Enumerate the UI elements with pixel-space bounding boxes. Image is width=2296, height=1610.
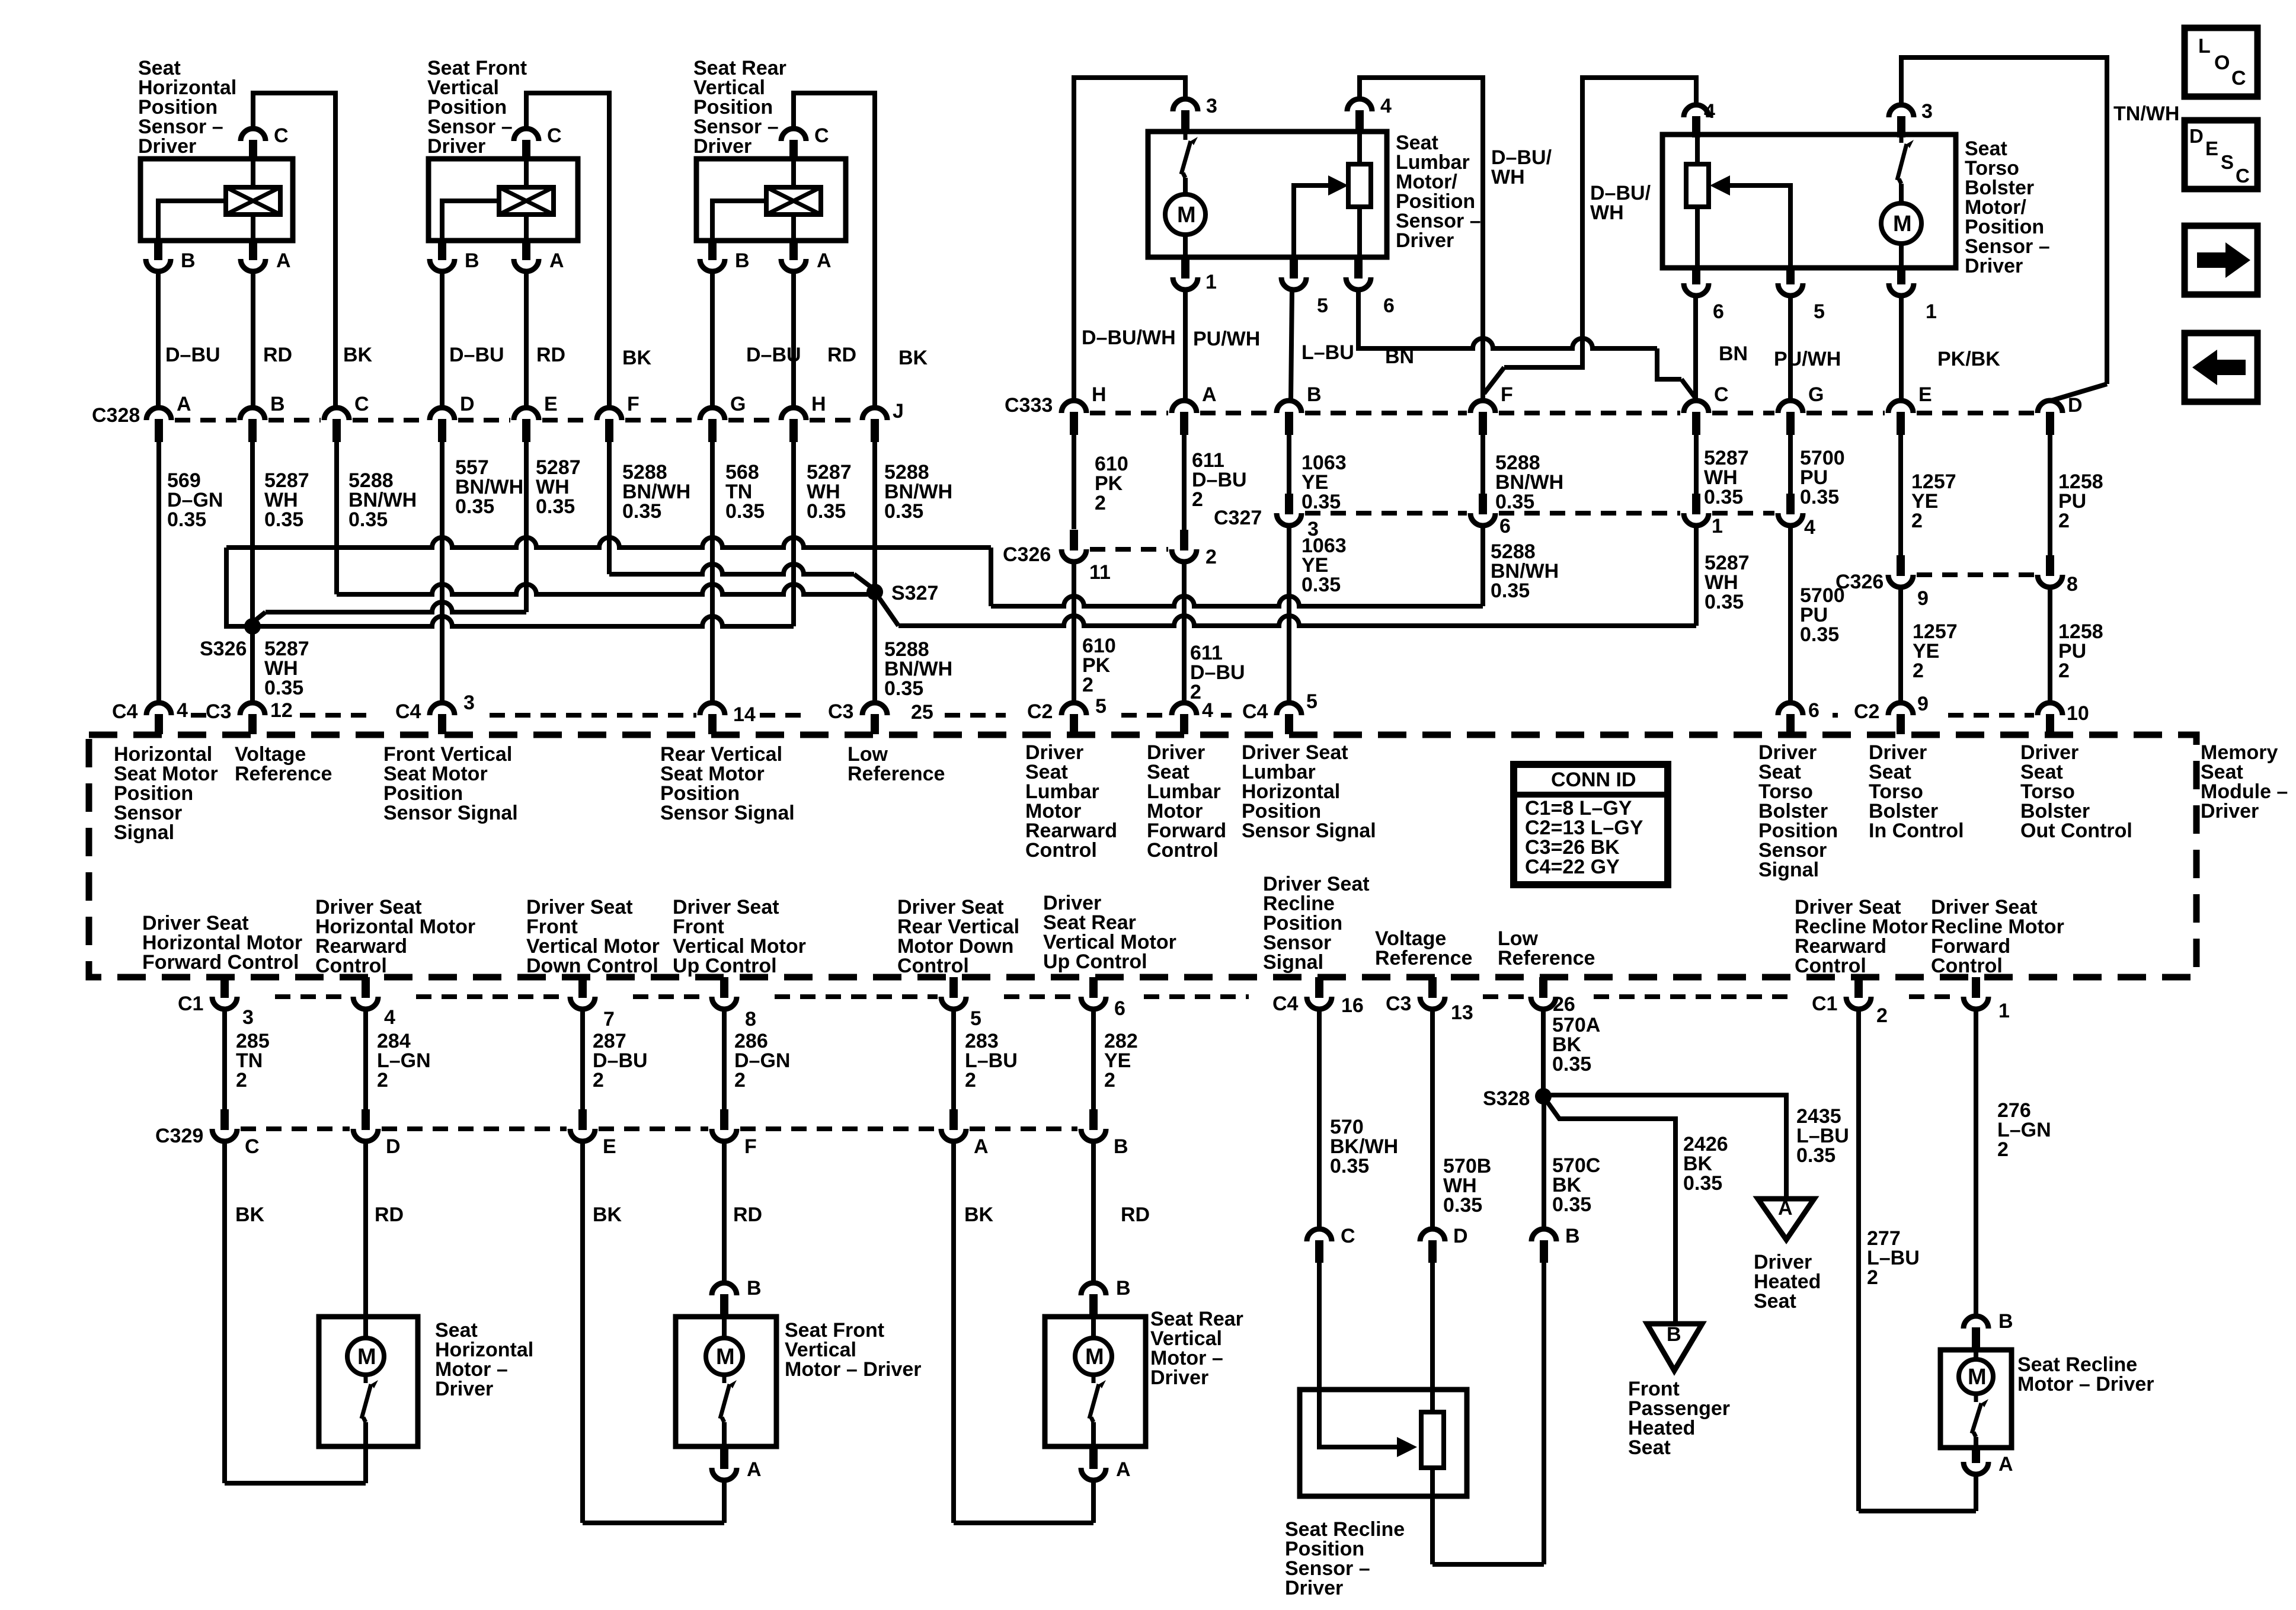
wire RD motor1 [363,1141,368,1317]
seat rear vertical motor box [1045,1317,1146,1446]
module bottom pin 7 [570,997,595,1009]
module row dashed line [1833,713,1838,718]
svg-text:M: M [357,1345,376,1369]
svg-text:Control: Control [897,955,969,977]
svg-text:Up Control: Up Control [673,955,777,977]
svg-text:2: 2 [1997,1138,2009,1161]
svg-text:0.35: 0.35 [1302,574,1341,596]
pin D C329 [353,1129,378,1141]
svg-text:C3: C3 [828,700,853,723]
pin J C328 [862,408,887,420]
pin A motor2 [712,1468,737,1480]
svg-text:B: B [1116,1277,1131,1299]
svg-text:C1: C1 [1812,993,1837,1015]
C328 dashed connector line [542,418,593,422]
seat front vertical position sensor box [428,159,578,241]
CONN ID table divider [1514,792,1668,798]
pin 9 C326 [1888,575,1913,587]
wire 5287 H column down [791,442,796,626]
svg-text:D: D [2189,125,2204,147]
svg-text:M: M [716,1345,735,1369]
wire 1063 to C4-5 [1287,526,1291,705]
wire 5700 to pin6 [1788,526,1793,705]
svg-text:A: A [817,249,832,272]
svg-text:F: F [627,393,639,415]
wire 570B WH [1430,1009,1435,1229]
wire diag S327 down [880,598,898,626]
wire 611 to pin4 [1182,562,1187,705]
svg-text:Reference: Reference [1498,947,1595,969]
seat front vertical motor box [676,1317,776,1446]
module row dashed line [945,713,1006,718]
module pin 3 [430,703,455,715]
C327 dashed line 6-1 [1499,511,1680,516]
module pin 6 [1778,703,1803,715]
pin F C328 [597,408,622,420]
svg-text:B: B [1998,1310,2013,1333]
wire into M3 [1091,1317,1096,1338]
svg-text:1: 1 [1205,271,1217,293]
C1 row dashed line [775,994,938,999]
motor M torso [1881,203,1921,244]
svg-text:2: 2 [1911,510,1923,532]
svg-text:B: B [1114,1135,1128,1158]
wire torso wiper [1719,185,1790,268]
pin 1 lumbar [1173,277,1198,290]
C333 dashed connector line [1806,411,1885,415]
svg-text:1: 1 [1998,1000,2010,1022]
svg-text:BK: BK [235,1204,265,1226]
module pin 4 [1172,703,1197,715]
pin B motor2 [712,1283,737,1295]
pin A C329 [941,1129,966,1141]
wire BK motor2 [580,1141,585,1523]
wire 5288 C column down [334,442,339,594]
wire sensor2 B down [440,271,445,408]
svg-text:C: C [2236,165,2250,187]
wire recline motor A down [1974,1474,1978,1511]
wire BK motor1 [222,1141,227,1483]
svg-text:D–BU: D–BU [449,344,504,366]
wire torso 1 down [1899,296,1904,401]
module bottom pin 13 [1420,997,1445,1009]
svg-text:H: H [811,393,826,415]
wire lumbar 5 down [1291,290,1292,401]
pin C C333 [1684,401,1709,413]
svg-text:C327: C327 [1214,507,1262,529]
wire sensor1 internal top [251,159,255,187]
wire sensor1 B down [156,271,161,408]
svg-text:2: 2 [1876,1004,1888,1027]
wire 5700 G down [1788,435,1793,494]
wire sensor2 internal top [524,159,529,187]
C329 dashed line [241,1126,350,1131]
pin 4 C327 [1778,513,1803,526]
pin B recline sensor [1531,1229,1556,1241]
svg-text:B: B [270,393,285,415]
svg-text:WH: WH [1590,201,1624,224]
C333 dashed connector line [1200,411,1273,415]
C329 dashed line [382,1126,567,1131]
wire sensor3 B down [710,271,715,408]
svg-text:O: O [2214,52,2230,74]
svg-text:B: B [1667,1323,1681,1346]
pin 4 lumbar [1347,99,1372,111]
wire lumbar pot top [1357,132,1362,164]
wire sensor3 internal top [791,159,796,187]
pin 3 C327 [1277,513,1302,526]
svg-text:Reference: Reference [848,763,945,785]
wire column 1609 C1 to C329 [951,1009,956,1110]
wire 5287 E column down [524,442,529,612]
module bottom pin 4 [353,997,378,1009]
svg-text:C3: C3 [1386,993,1411,1015]
C1 row dashed line [1483,994,1527,999]
torso box [1662,135,1956,268]
svg-text:2: 2 [1190,681,1201,703]
pot recline [1421,1412,1444,1468]
module row dashed line [184,713,206,718]
pin B recline motor [1964,1316,1988,1329]
wire 5287 bus line3 [266,602,526,612]
svg-text:F: F [744,1135,757,1158]
wire S328 to triangle A [1550,1095,1786,1199]
wire 570C BK [1542,1103,1546,1229]
svg-text:M: M [1968,1365,1987,1390]
C328 dashed connector line [175,418,236,422]
svg-text:2: 2 [1082,674,1093,696]
svg-text:0.35: 0.35 [1552,1193,1591,1216]
svg-text:D–BU: D–BU [165,344,220,366]
wire into M2 [722,1317,727,1338]
wire 5288 J column [872,442,877,705]
wire 5288 F down [1480,435,1485,494]
wire recline D down [1430,1263,1435,1564]
seat rear vertical position sensor box [696,159,846,241]
svg-text:Signal: Signal [1263,951,1323,974]
pin 1 torso [1889,283,1914,296]
wire 568 G column [710,442,715,705]
svg-text:TN/WH: TN/WH [2113,103,2179,125]
svg-text:3: 3 [1206,95,1217,117]
svg-text:E: E [2205,137,2218,159]
wire torso 6 down [1693,296,1698,398]
wire 5288 bus to C327-1 [898,616,1696,626]
svg-text:0.35: 0.35 [1302,491,1341,513]
svg-text:B: B [747,1277,762,1299]
svg-text:0.35: 0.35 [455,495,494,518]
svg-text:RD: RD [536,344,565,366]
svg-text:0.35: 0.35 [1683,1172,1722,1195]
module pin 5 [1061,703,1086,715]
svg-text:C329: C329 [155,1125,203,1147]
pin 3 torso [1889,105,1914,117]
C1 row dashed line [1004,994,1077,999]
wire 5287 C down [1694,435,1699,494]
svg-text:2: 2 [965,1069,976,1092]
svg-text:Seat: Seat [1628,1436,1671,1459]
svg-text:L–BU: L–BU [1302,341,1354,364]
potentiometer sensor 3 [766,187,821,215]
C328 dashed connector line [353,418,426,422]
CONN ID table box [1514,764,1668,885]
svg-text:C3: C3 [206,700,231,723]
svg-text:C4: C4 [395,700,421,723]
svg-text:13: 13 [1451,1001,1473,1024]
wire torso 5 down [1788,296,1793,401]
svg-text:5: 5 [970,1007,981,1030]
svg-text:4: 4 [1202,699,1213,722]
module bottom pin 5 [941,997,966,1009]
module bottom pin 8 [712,997,737,1009]
pin C C329 [212,1129,237,1141]
pin B sensor3 [700,259,725,271]
svg-text:BK: BK [622,347,652,369]
wire 611 down [1182,435,1187,530]
pin D recline sensor [1420,1229,1445,1241]
module row dashed line [760,713,807,718]
wire 1257 E down [1898,435,1903,555]
C1 row dashed line [275,994,350,999]
wire RD into M1 [363,1317,368,1338]
svg-text:Sensor Signal: Sensor Signal [383,802,518,824]
svg-text:G: G [1808,383,1824,406]
pin 4 torso [1684,105,1709,117]
wire up into C327-6 [1480,526,1485,606]
wire 610 PK to C2-5 [1072,562,1076,705]
seat recline position sensor box [1300,1390,1467,1496]
svg-text:Signal: Signal [1758,859,1819,881]
svg-text:1: 1 [1926,300,1937,323]
svg-text:6: 6 [1808,699,1819,722]
svg-text:D: D [2068,394,2083,417]
svg-text:6: 6 [1713,300,1724,323]
svg-text:E: E [603,1135,616,1158]
svg-text:C: C [274,124,289,147]
C329 dashed line [740,1126,938,1131]
svg-text:BN: BN [1719,343,1748,365]
C333 dashed connector line [1712,411,1774,415]
icon left arrow [2192,350,2246,385]
wire BN bus [1358,338,1657,348]
svg-text:6: 6 [1499,515,1511,537]
svg-text:Motor – Driver: Motor – Driver [785,1358,922,1381]
svg-text:S327: S327 [891,582,938,604]
svg-text:5: 5 [1095,695,1107,718]
C333 dashed connector line [1499,411,1680,415]
svg-text:3: 3 [463,692,475,714]
wire 570A BK [1541,1009,1546,1089]
pin F C333 [1470,401,1495,413]
wire 1257 to C2-9 [1898,587,1903,705]
module pin 14 [700,703,725,715]
triangle B front passenger heated seat [1647,1324,1702,1371]
svg-text:WH: WH [1491,166,1525,188]
splice S328 [1535,1088,1552,1105]
svg-text:2: 2 [377,1069,388,1092]
wire motor1 loop [225,1481,366,1486]
svg-text:CONN ID: CONN ID [1551,769,1636,791]
svg-text:Control: Control [1931,955,2003,977]
pin A C333 [1172,401,1197,413]
svg-text:BK: BK [343,344,373,366]
motor M seat horizontal [347,1338,384,1375]
svg-text:25: 25 [911,701,933,724]
pin 6 torso [1684,283,1709,296]
module pin 4 [146,703,171,715]
wire torso 4 up-left [1504,78,1696,367]
svg-text:S326: S326 [200,638,247,660]
C328 dashed connector line [810,418,859,422]
svg-text:C: C [245,1135,260,1158]
svg-text:0.35: 0.35 [264,508,303,531]
C1 row dashed line [1909,994,1960,999]
motor M seat rear vertical [1075,1338,1112,1375]
wire sensor2 internal left [442,201,499,241]
wire switch3 down [1091,1422,1096,1446]
wire column 617 C1 to C329 [363,1009,368,1110]
svg-text:0.35: 0.35 [1800,486,1839,508]
pin C sensor3 [781,129,806,141]
wire column 379 C1 to C329 [222,1009,227,1110]
C327 dashed line 3-6 [1305,511,1467,516]
wire sensor1 C to BK [253,93,335,408]
svg-text:E: E [544,393,558,415]
seat horizontal motor box [319,1317,418,1446]
svg-text:C326: C326 [1003,543,1051,566]
svg-text:Control: Control [1025,839,1097,862]
arrowhead torso wiper [1710,175,1730,196]
svg-text:3: 3 [242,1006,254,1029]
module row dashed line [490,713,696,718]
pin C sensor2 [514,129,539,141]
pin B C328 [240,408,265,420]
wire sensor2 internal bottom [524,215,529,241]
module pin 12 [240,703,265,715]
C1 row dashed line [1144,994,1249,999]
switch motor2 [722,1375,727,1383]
svg-text:Driver: Driver [1285,1577,1343,1599]
icon box left arrow [2185,333,2257,402]
svg-text:Driver: Driver [2201,800,2259,822]
wire 610 PK down [1072,435,1076,529]
module row dashed line [300,713,374,718]
seat horizontal position sensor box [140,159,293,241]
pin H C333 [1061,401,1086,413]
pin 5 torso [1778,283,1803,296]
wire diag S326 up [254,612,266,622]
switch torso [1900,135,1904,143]
C329 dashed line [599,1126,708,1131]
svg-text:2: 2 [236,1069,247,1092]
svg-text:S: S [2221,151,2234,173]
module bottom pin 1 [1964,997,1988,1009]
svg-text:26: 26 [1553,993,1575,1016]
svg-text:11: 11 [1089,561,1111,584]
pin A sensor2 [514,259,539,271]
wire motor3 A down [1091,1480,1096,1523]
svg-text:4: 4 [1704,100,1715,123]
svg-text:2: 2 [1104,1069,1115,1092]
svg-text:RD: RD [733,1204,762,1226]
wire torso pot bottom [1695,207,1700,268]
pin B C333 [1277,401,1302,413]
switch motor1 [364,1375,368,1383]
svg-text:E: E [1918,383,1932,406]
svg-text:Driver: Driver [435,1378,493,1400]
C328 dashed connector line [728,418,778,422]
svg-text:3: 3 [1921,100,1933,123]
svg-text:Signal: Signal [114,821,174,844]
svg-text:Control: Control [1795,955,1866,977]
motor M seat recline [1959,1359,1993,1394]
svg-text:0.35: 0.35 [622,500,661,523]
svg-text:6: 6 [1383,295,1395,317]
svg-text:B: B [735,249,750,272]
wire diag F into S327 [854,574,871,587]
svg-text:B: B [181,249,196,272]
arrowhead lumbar wiper [1328,175,1348,196]
potentiometer sensor 1 [226,187,280,215]
wire motor2 A down [722,1480,727,1523]
pin C sensor1 [241,129,266,141]
icon box LOC [2185,28,2257,97]
wire S328 diag to triangle B [1547,1102,1675,1324]
wire switch1 down [363,1422,368,1446]
pin G C328 [700,408,725,420]
svg-text:C: C [1714,383,1729,406]
splice S327 [866,584,883,600]
svg-text:Down Control: Down Control [526,955,658,977]
svg-text:0.35: 0.35 [1552,1053,1591,1076]
pin A C328 [146,408,171,420]
wire sensor1 internal bottom [251,215,255,241]
svg-text:0.35: 0.35 [536,495,575,518]
svg-text:A: A [276,249,291,272]
pin 8 C326 [2038,575,2062,587]
svg-text:0.35: 0.35 [1330,1155,1369,1177]
pin D C328 [430,408,455,420]
arrowhead recline wiper [1397,1437,1417,1457]
svg-text:Sensor Signal: Sensor Signal [660,802,795,824]
svg-text:A: A [1998,1453,2013,1475]
C326 dashed line 11-2 [1090,547,1168,552]
pin E C333 [1888,401,1913,413]
wire recline bottom [1432,1562,1544,1567]
svg-text:0.35: 0.35 [1495,491,1534,513]
svg-text:D: D [386,1135,401,1158]
module bottom pin 2 [1846,997,1871,1009]
wire 5287 bus jog down [989,548,993,606]
wire RD motor2 [722,1141,727,1283]
C327 dashed line 1-4 [1712,511,1774,516]
wire sensor2 C to BK [526,93,609,408]
wire column 983 C1 to C329 [580,1009,585,1110]
wire up into C327-1 [1694,526,1699,626]
svg-text:RD: RD [1121,1204,1150,1226]
wire motor3 loop [954,1521,1093,1525]
pin 3 lumbar [1173,99,1198,111]
wire 5288 F column down [607,442,612,574]
wire lumbar 4 up-right [1360,78,1483,401]
svg-text:A: A [974,1135,989,1158]
pin A sensor3 [781,259,806,271]
svg-text:BK: BK [898,347,928,369]
svg-text:M: M [1893,212,1912,236]
pin B sensor1 [146,259,171,271]
wire 1258 to pin10 [2048,587,2052,705]
wire BN bus jog [1657,348,1681,379]
